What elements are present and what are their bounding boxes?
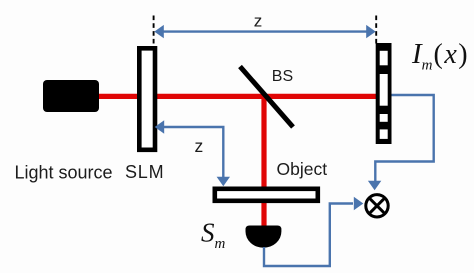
svg-text:Light source: Light source: [15, 163, 113, 183]
wire: red beam vertical to object: [261, 97, 266, 228]
object slide: [215, 189, 318, 201]
SLM: [139, 48, 155, 150]
svg-text:Im(x): Im(x): [411, 38, 468, 74]
svg-text:Object: Object: [277, 159, 328, 179]
svg-text:z: z: [254, 12, 262, 31]
svg-text:BS: BS: [272, 68, 293, 85]
wire: blue z path SLM to object: [155, 120, 230, 186]
multiplier node (circle with X): [366, 195, 388, 217]
beam splitter BS: [240, 67, 293, 128]
detector array I_m: [376, 43, 392, 144]
light source: [43, 80, 99, 112]
svg-text:SLM: SLM: [125, 162, 164, 182]
wire: z double arrow: [154, 25, 375, 38]
detector dome S_m: [246, 226, 282, 248]
dashed reference line right: [375, 16, 377, 47]
wire: blue path detector to multiplier: [368, 95, 434, 190]
wire: red beam horizontal: [96, 94, 376, 99]
svg-text:z: z: [195, 136, 204, 156]
wire: blue path dome to multiplier: [264, 197, 363, 266]
dashed reference line left: [153, 16, 155, 47]
